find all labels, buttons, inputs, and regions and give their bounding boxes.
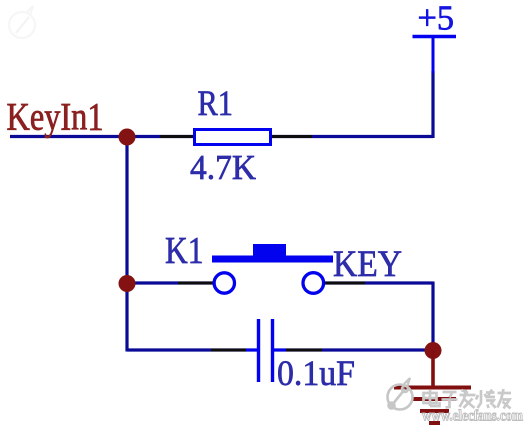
ground bar 3 (420, 409, 449, 413)
发 (460, 390, 476, 409)
pin: capacitor right pin (black) (284, 349, 322, 352)
svg-text:4.7K: 4.7K (190, 148, 256, 187)
友 (498, 389, 512, 409)
capacitor left plate (257, 319, 260, 382)
watermark: 电子发烧友 (approximated CJK strokes) (424, 389, 512, 409)
wire: junction B to switch K1 left contact (127, 281, 225, 284)
烧 (476, 390, 496, 409)
svg-text:KEY: KEY (333, 244, 402, 285)
wire: switch K1 right contact to right vertical (313, 281, 433, 284)
pin: switch K1 right pin (black) (324, 282, 365, 285)
switch K1 right contact circle (303, 273, 324, 294)
power port +5 stem (432, 37, 435, 74)
pin: switch K1 left pin (black) (178, 282, 214, 285)
watermark: elecfans logo circle (388, 378, 413, 410)
ground stem (431, 350, 435, 387)
power port +5 bar (413, 35, 457, 38)
pin: resistor R1 right pin (black) (271, 135, 312, 138)
capacitor left lead stub (246, 349, 258, 352)
switch K1 left contact circle (214, 273, 234, 293)
ground bar 1 (394, 386, 471, 390)
子 (442, 392, 458, 408)
junction C (capacitor / ground node) (425, 342, 442, 359)
junction B (switch branch node) (119, 275, 136, 292)
junction A (KeyIn1 / R1 node) (119, 129, 136, 146)
wire: KeyIn1 horizontal net to junction A (10, 135, 433, 138)
watermark: faint ghost logo top-left (9, 6, 35, 38)
ground bar 4 (429, 421, 440, 425)
resistor R1 body (195, 130, 271, 145)
pin: capacitor left pin (black) (211, 349, 248, 352)
capacitor right lead stub (272, 349, 286, 352)
capacitor right plate (271, 319, 274, 382)
svg-text:R1: R1 (198, 83, 234, 123)
wire: right vertical from switch net down to junction C (431, 282, 434, 351)
svg-text:KeyIn1: KeyIn1 (7, 96, 104, 139)
svg-text:www.elecfans.com: www.elecfans.com (422, 408, 524, 425)
wire: vertical from junction A down to junction B and capacitor net (125, 135, 128, 352)
电 (424, 390, 440, 406)
ground bar 2 (413, 397, 456, 401)
wire: vertical drop from +5 rail to R1 net (431, 71, 434, 138)
svg-text:0.1uF: 0.1uF (277, 353, 355, 393)
wire: capacitor right plate to junction C (272, 348, 433, 351)
wire: bottom net from vertical to capacitor left plate (127, 348, 258, 351)
svg-text:K1: K1 (165, 230, 204, 272)
switch K1 actuator bar (212, 256, 333, 263)
switch K1 actuator bump (253, 244, 286, 256)
pin: resistor R1 left pin (black) (160, 135, 194, 138)
svg-text:+5: +5 (418, 0, 455, 38)
